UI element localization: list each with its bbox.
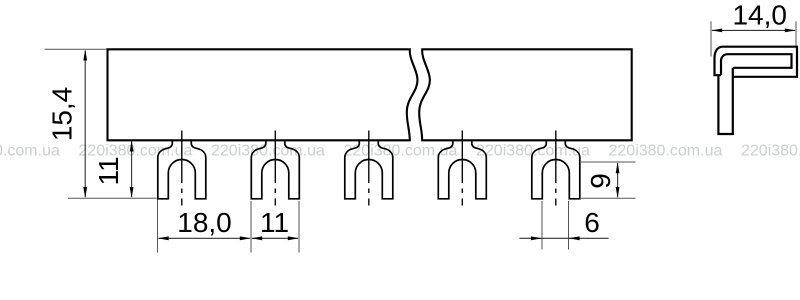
watermark row (0, 143, 800, 160)
svg-text:11: 11 (260, 207, 289, 238)
profile view inner contour (721, 54, 792, 75)
fork prong F5 (532, 131, 580, 206)
dimension 6 (520, 201, 609, 250)
profile view outer contour (715, 47, 798, 77)
svg-text:9: 9 (585, 173, 616, 189)
dimension 18,0 (158, 200, 252, 253)
svg-text:6: 6 (584, 207, 600, 238)
svg-text:18,0: 18,0 (177, 207, 232, 238)
dimension 14,0 (711, 0, 796, 57)
fork prong F4 (438, 131, 486, 206)
svg-text:220i380.com.ua: 220i380.com.ua (0, 143, 60, 160)
svg-text:15,4: 15,4 (47, 87, 78, 142)
fork prong F1 (158, 131, 206, 206)
dimension 11 horizontal (251, 201, 299, 253)
svg-text:14,0: 14,0 (732, 0, 787, 31)
dimension 9 (581, 162, 636, 198)
dimension 11 vertical (93, 141, 134, 199)
svg-text:220i380.com.ua: 220i380.com.ua (476, 143, 590, 160)
svg-text:220i380.com.ua: 220i380.com.ua (609, 143, 723, 160)
svg-text:220i380.com.ua: 220i380.com.ua (211, 143, 325, 160)
dimension 15,4 (45, 49, 157, 198)
profile view blade (718, 68, 732, 134)
fork prong F3 (345, 131, 393, 206)
fork prong F2 (251, 131, 299, 206)
busbar right section (419, 49, 632, 140)
svg-text:11: 11 (93, 156, 124, 185)
busbar left section (108, 49, 418, 140)
svg-text:220i380.com.ua: 220i380.com.ua (741, 143, 800, 160)
